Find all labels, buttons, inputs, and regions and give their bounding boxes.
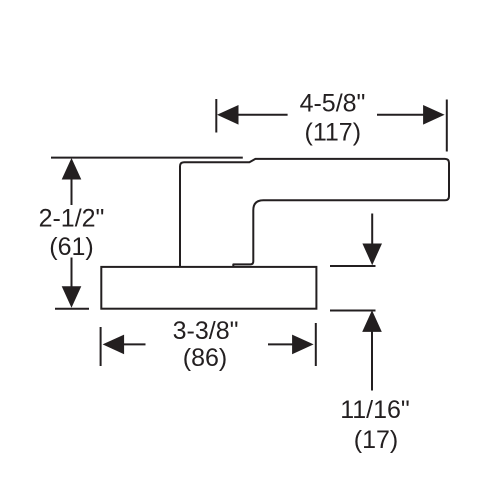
rose rectangle bbox=[101, 267, 316, 309]
dim 3-3/8: left shaft bbox=[123, 343, 146, 345]
lever handle profile bbox=[180, 159, 449, 267]
dim 2-1/2: upper shaft bbox=[71, 178, 73, 205]
dim 11/16: lower shaft bbox=[371, 331, 373, 391]
dim 4-5/8: right arrowhead bbox=[423, 105, 445, 125]
svg-text:3-3/8": 3-3/8" bbox=[173, 317, 239, 345]
svg-text:(17): (17) bbox=[354, 426, 398, 454]
svg-text:(117): (117) bbox=[305, 119, 362, 147]
dim 3-3/8: right shaft bbox=[268, 343, 295, 345]
dim 2-1/2: bottom tick bbox=[55, 308, 89, 310]
svg-text:2-1/2": 2-1/2" bbox=[39, 205, 105, 233]
dim 2-1/2: lower shaft bbox=[71, 258, 73, 289]
dim 11/16: up arrowhead bbox=[362, 310, 382, 332]
dim 11/16: down arrowhead bbox=[362, 244, 382, 266]
svg-text:(86): (86) bbox=[183, 344, 227, 372]
dim 3-3/8: left tick bbox=[100, 327, 102, 366]
dim 4-5/8: left tick bbox=[215, 99, 217, 133]
svg-text:11/16": 11/16" bbox=[340, 396, 410, 424]
dim 11/16: upper shaft bbox=[371, 214, 373, 246]
dim 4-5/8: right tick bbox=[446, 100, 448, 152]
dim 4-5/8: left shaft bbox=[237, 114, 288, 116]
dim 4-5/8: left arrowhead bbox=[217, 105, 239, 125]
top reference line (lever top extension) bbox=[51, 157, 243, 159]
dim 3-3/8: right arrowhead bbox=[292, 335, 314, 355]
dim 2-1/2: up arrowhead bbox=[62, 158, 82, 180]
svg-text:4-5/8": 4-5/8" bbox=[300, 90, 366, 118]
dim 11/16: bottom extension line bbox=[330, 310, 376, 312]
dim 3-3/8: left arrowhead bbox=[103, 335, 125, 355]
dim 2-1/2: down arrowhead bbox=[62, 286, 82, 308]
svg-text:(61): (61) bbox=[49, 233, 93, 261]
dim 11/16: top extension line bbox=[330, 265, 376, 267]
dim 4-5/8: right shaft bbox=[377, 114, 426, 116]
dim 3-3/8: right tick bbox=[315, 323, 317, 366]
